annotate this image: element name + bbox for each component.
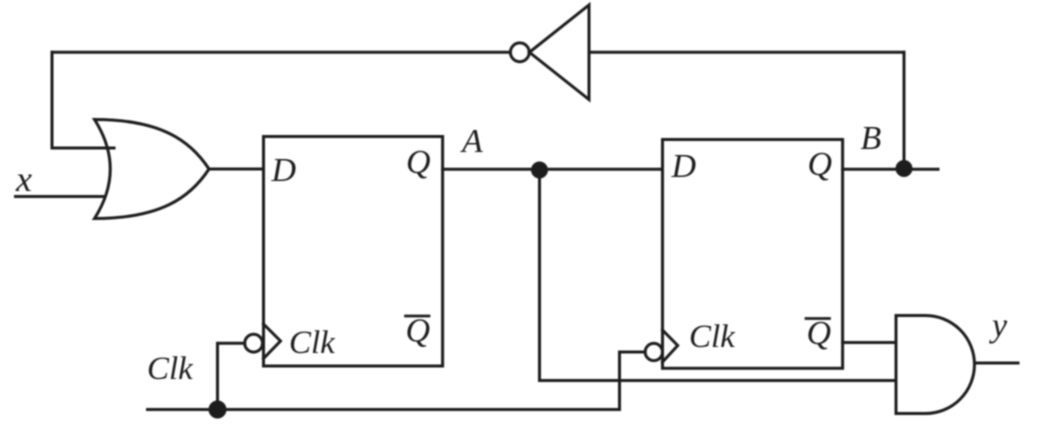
- FF1 clock bubble: [245, 334, 263, 352]
- wire left feedback vertical: [51, 52, 54, 148]
- wire node A horizontal to AND input: [540, 379, 897, 382]
- wire FF2 Qbar to AND input: [843, 341, 896, 344]
- svg-text:y: y: [989, 308, 1008, 345]
- inverter G3 triangle: [529, 5, 589, 100]
- svg-text:Q: Q: [406, 313, 431, 350]
- wire clock bottom horizontal: [148, 408, 620, 411]
- svg-text:Clk: Clk: [289, 325, 336, 361]
- wire feedback into OR gate input: [52, 147, 114, 150]
- svg-text:Clk: Clk: [147, 351, 194, 387]
- wire FF1 Q output to FF2 D (node A): [443, 168, 663, 171]
- junction clock node dot: [210, 402, 225, 417]
- junction node B dot: [897, 162, 911, 176]
- wire node A vertical down: [538, 170, 541, 381]
- svg-text:Q: Q: [406, 144, 431, 181]
- wire inverter input from node B riser: [589, 51, 904, 54]
- wire clock riser to FF1: [218, 343, 245, 409]
- wire clock riser to FF2: [620, 352, 646, 410]
- svg-text:Q: Q: [807, 315, 832, 352]
- svg-text:B: B: [861, 120, 882, 157]
- FF2 clock wedge: [663, 330, 678, 362]
- wire OR output to FF1 D: [209, 168, 264, 171]
- FF2 Qbar overline: [806, 317, 830, 320]
- wire top feedback horizontal (inverter output to left): [52, 51, 510, 54]
- FF2 clock bubble: [645, 343, 662, 360]
- svg-text:D: D: [671, 148, 697, 185]
- or-gate G1: [95, 120, 210, 219]
- svg-text:D: D: [271, 152, 297, 189]
- inverter G3 bubble: [510, 43, 529, 62]
- svg-text:x: x: [15, 159, 32, 199]
- and-gate G2: [896, 316, 974, 414]
- wire vertical down to node B: [903, 52, 906, 168]
- wire AND output y: [975, 362, 1019, 365]
- wire node B stub (FF2 Q output): [843, 168, 938, 171]
- D flip-flop FF2 body: [663, 140, 843, 369]
- FF1 clock wedge: [264, 324, 281, 359]
- svg-text:A: A: [460, 123, 483, 160]
- D flip-flop FF1 body: [264, 137, 443, 367]
- junction node A dot: [533, 163, 547, 177]
- svg-text:Q: Q: [808, 146, 833, 183]
- wire input x: [16, 195, 106, 198]
- svg-text:Clk: Clk: [689, 319, 736, 355]
- FF1 Qbar overline: [406, 315, 430, 318]
